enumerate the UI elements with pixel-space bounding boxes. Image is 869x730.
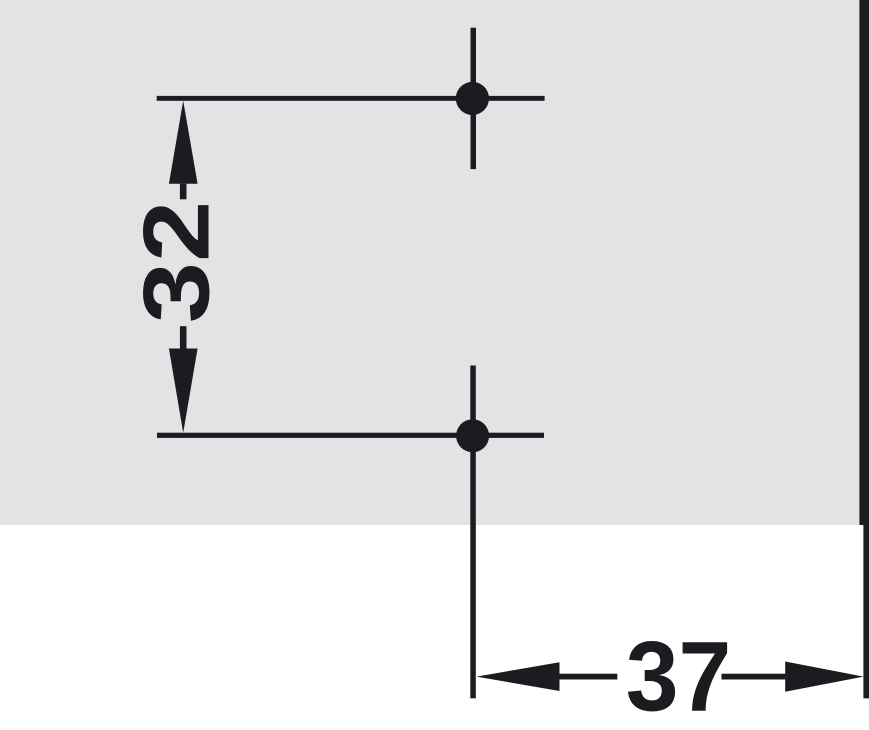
dim 32 down arrowhead [169,349,198,433]
panel front edge line [859,0,869,525]
dim 37 right line segment [722,674,786,680]
hole H1 (upper drill hole) [456,82,489,115]
dim 37 right arrowhead [785,662,863,692]
dim 37 left line segment [560,674,618,680]
hole H2 horizontal centerline [157,433,544,438]
dim 32 up arrowhead [169,101,198,184]
hole H1 horizontal centerline [157,96,545,101]
edge extension line [863,525,869,698]
panel (grey workpiece surface) [0,0,869,525]
svg-text:37: 37 [626,621,732,730]
svg-text:32: 32 [123,201,228,323]
hole H2 (lower drill hole) [456,419,489,452]
hole H2 vertical centerline [470,366,476,699]
dim 32 upper stub line [180,184,187,200]
hole H1 vertical centerline [471,28,477,169]
dim 37 left arrowhead [476,662,559,691]
dim 32 lower stub line [180,326,187,348]
